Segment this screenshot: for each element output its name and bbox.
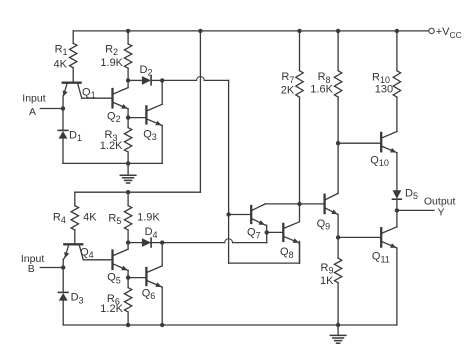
svg-text:Q8: Q8 xyxy=(280,246,294,260)
wire Q11 base xyxy=(338,236,380,238)
node Q2 emitter xyxy=(126,115,130,119)
svg-text:B: B xyxy=(28,263,35,275)
wire Q7 base xyxy=(229,214,250,216)
node Q7/Q8 collector junction xyxy=(297,202,301,206)
svg-text:Output: Output xyxy=(424,195,456,207)
wire output Y xyxy=(397,209,434,211)
svg-text:Q10: Q10 xyxy=(370,154,389,168)
wire Q2 emitter to Q3 base xyxy=(128,117,145,119)
wire Q8 collector up xyxy=(299,204,301,222)
node R6 bottom xyxy=(126,323,130,327)
wire Q9 base xyxy=(300,203,324,205)
node Q10 base junction xyxy=(336,141,340,145)
svg-text:1.2K: 1.2K xyxy=(100,140,123,152)
transistor Q3 xyxy=(145,106,147,123)
wire Q2 collector up xyxy=(127,80,129,87)
svg-text:+VCC: +VCC xyxy=(436,26,462,40)
wire upper ground rail xyxy=(63,162,162,164)
wire D4 to Q7 emitter node (hop over AND column) xyxy=(162,242,225,244)
wire bottom ground rail xyxy=(63,324,397,326)
wire Q11 emitter down xyxy=(396,248,398,325)
svg-text:D5: D5 xyxy=(405,188,418,202)
node feeder top xyxy=(198,29,202,33)
svg-text:1.9K: 1.9K xyxy=(137,212,160,224)
wire Q10 emitter down xyxy=(396,153,398,191)
svg-text:D3: D3 xyxy=(71,292,84,306)
node R5 top xyxy=(126,190,130,194)
resistor R2 xyxy=(127,31,129,44)
resistor R1 xyxy=(72,31,74,43)
wire Q5 emitter to Q6 base xyxy=(128,277,145,279)
wire VCC feeder to lower section xyxy=(199,31,201,192)
wire output node down to Q11 collector xyxy=(396,210,398,227)
wire Q6 collector up xyxy=(161,243,163,266)
svg-text:D1: D1 xyxy=(69,129,82,143)
svg-text:R1: R1 xyxy=(55,44,68,58)
diode D4 xyxy=(128,242,142,244)
node R10 top xyxy=(395,29,399,33)
node R2 top xyxy=(126,29,130,33)
svg-text:Q4: Q4 xyxy=(80,246,94,260)
node R3 bottom xyxy=(126,161,130,165)
svg-text:1K: 1K xyxy=(320,275,334,287)
svg-text:Q3: Q3 xyxy=(143,129,157,143)
resistor R5 xyxy=(127,192,129,205)
resistor R7 xyxy=(299,31,301,71)
diode D2 xyxy=(128,79,142,81)
transistor Q7 xyxy=(250,206,252,223)
node R7 top xyxy=(297,29,301,33)
svg-text:R2: R2 xyxy=(105,43,118,57)
transistor Q4 xyxy=(64,243,82,245)
transistor Q6 xyxy=(145,268,147,285)
svg-text:2K: 2K xyxy=(281,84,295,96)
svg-text:Q6: Q6 xyxy=(142,288,156,302)
svg-text:Q9: Q9 xyxy=(317,218,331,232)
resistor R4 xyxy=(74,192,76,205)
VCC terminal xyxy=(429,28,434,33)
node R2 bottom xyxy=(126,78,130,82)
wire Q3 emitter down xyxy=(161,126,163,164)
node input B xyxy=(61,265,65,269)
wire Q5 collector up xyxy=(127,243,129,250)
node output xyxy=(395,208,399,212)
wire Q8 base xyxy=(267,231,282,233)
svg-text:4K: 4K xyxy=(83,212,97,224)
svg-text:130: 130 xyxy=(375,84,393,96)
wire lower VCC rail xyxy=(75,191,201,193)
node Q9 emitter / R9 / Q11 base junction xyxy=(336,235,340,239)
ground (main) xyxy=(337,325,339,335)
svg-text:R4: R4 xyxy=(53,212,66,226)
transistor Q2 xyxy=(111,89,113,107)
svg-text:Q7: Q7 xyxy=(247,227,261,241)
transistor Q11 xyxy=(380,228,382,246)
transistor Q1 xyxy=(63,82,81,84)
diode D5 xyxy=(393,190,402,199)
wire Q5 emitter down xyxy=(127,270,129,277)
svg-text:Q11: Q11 xyxy=(372,251,390,265)
svg-text:R5: R5 xyxy=(108,212,121,226)
wire D2 to Q7 column (hop over feeder) xyxy=(162,79,196,81)
svg-text:R9: R9 xyxy=(321,262,334,276)
wire Q10 collector up xyxy=(396,97,398,131)
wire input B xyxy=(40,267,63,269)
node Q7 base xyxy=(226,212,230,216)
diode D3 xyxy=(62,268,64,293)
svg-text:1.9K: 1.9K xyxy=(100,57,123,69)
resistor R6 xyxy=(127,278,129,288)
svg-text:Input: Input xyxy=(22,92,45,104)
node R8 top xyxy=(336,29,340,33)
diode D1 xyxy=(62,109,64,131)
wire Q7 collector to node xyxy=(265,203,299,205)
wire Q10 base xyxy=(338,142,380,144)
node Q5 emitter xyxy=(126,275,130,279)
wire Q2 emitter down xyxy=(127,109,129,118)
node D2 cathode xyxy=(160,78,164,82)
svg-text:D4: D4 xyxy=(145,226,158,240)
svg-text:A: A xyxy=(29,106,36,118)
resistor R10 xyxy=(396,31,398,71)
svg-text:Q2: Q2 xyxy=(107,110,121,124)
wire Q9 collector up xyxy=(337,143,339,193)
wire Q1 collector to Q2 base xyxy=(82,97,112,99)
wire Q7 emitter down xyxy=(266,225,268,232)
wire Q9 emitter down xyxy=(337,215,339,238)
wire input A xyxy=(40,108,63,110)
transistor Q8 xyxy=(282,224,284,241)
svg-text:Q5: Q5 xyxy=(107,272,121,286)
svg-text:1.6K: 1.6K xyxy=(310,84,333,96)
node D4 cathode xyxy=(160,240,164,244)
node Q6 emitter bottom xyxy=(160,323,164,327)
node main ground xyxy=(336,323,340,327)
wire Q6 emitter down xyxy=(161,287,163,325)
node input A xyxy=(61,106,65,110)
wire Q3 collector up xyxy=(161,80,163,104)
node R5 bottom xyxy=(126,240,130,244)
node Q7 emitter / Q8 base xyxy=(265,230,269,234)
resistor R9 xyxy=(337,237,339,258)
resistor R8 xyxy=(337,31,339,71)
wire Q4 collector to Q5 base xyxy=(83,259,111,261)
wire Q8 emitter down xyxy=(299,243,301,263)
transistor Q5 xyxy=(111,251,113,269)
svg-text:4K: 4K xyxy=(54,58,68,70)
svg-text:Y: Y xyxy=(438,207,445,219)
svg-text:D2: D2 xyxy=(140,64,153,78)
transistor Q10 xyxy=(380,133,382,151)
ground (upper section) xyxy=(127,163,129,175)
svg-text:R7: R7 xyxy=(281,71,294,85)
wire VCC top rail xyxy=(73,30,429,32)
resistor R3 xyxy=(127,118,129,128)
transistor Q9 xyxy=(323,195,325,213)
svg-text:1.2K: 1.2K xyxy=(100,303,123,315)
